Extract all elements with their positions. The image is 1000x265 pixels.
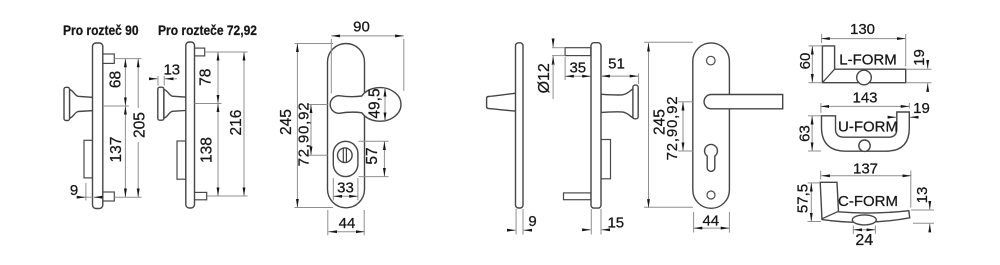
Ø12 tail — [552, 64, 554, 100]
svg-text:72,90,92: 72,90,92 — [664, 96, 681, 161]
svg-text:Pro rozteče 72,92: Pro rozteče 72,92 — [158, 22, 257, 38]
knob K1 cap — [64, 87, 70, 120]
ext 57-dim top — [359, 140, 389, 142]
plate P1 (side view) — [93, 43, 103, 209]
ext 245-dim top (G5) — [644, 41, 693, 43]
knob K1 flare — [70, 90, 94, 119]
C-FORM handle outline — [820, 182, 910, 222]
dim 9 right arrow (G4) — [524, 229, 532, 231]
ext bottom-tab right part (G1) — [114, 196, 141, 198]
plate P5 (front view, stadium) — [693, 43, 730, 208]
dimension 49,5 line — [384, 88, 386, 121]
ext 44-dim left (G5) — [693, 212, 695, 233]
dimension 216 line — [243, 52, 245, 196]
svg-text:143: 143 — [852, 90, 877, 107]
ext 63-dim top — [808, 115, 821, 117]
ext 72,90,92 top (G3) — [308, 104, 328, 106]
svg-text:90: 90 — [353, 19, 370, 36]
ext 9-dim left (G4) — [515, 209, 517, 235]
dimension 72,90,92 line (G3) — [310, 105, 312, 156]
cylinder housing (G4 right plate) — [601, 140, 611, 179]
19-dim bottom arrow (L) — [927, 83, 929, 91]
screw tab bottom (G2) — [194, 192, 207, 199]
ext 90-dim left — [330, 39, 332, 94]
dimension 205 upper segment — [137, 59, 139, 108]
ext 15-dim left — [590, 209, 592, 235]
dimension 51 line — [601, 75, 638, 77]
svg-text:130: 130 — [850, 21, 875, 38]
ext Ø12 bottom — [552, 55, 565, 57]
svg-text:137: 137 — [853, 161, 878, 178]
svg-text:137: 137 — [108, 137, 125, 163]
L-FORM spindle boss — [857, 70, 872, 85]
handle plate (right, G4) — [591, 43, 601, 208]
svg-text:44: 44 — [702, 212, 719, 229]
dim 13 right arrow — [165, 78, 177, 80]
ext 19-dim bottom (L) — [906, 82, 932, 84]
19-dim left arrow (U) — [891, 116, 897, 118]
svg-text:24: 24 — [855, 232, 873, 249]
dimension 68 line — [124, 59, 126, 106]
svg-text:57: 57 — [364, 147, 381, 164]
cylinder housing (G2) — [177, 141, 186, 179]
ext 13-dim right (G2) — [163, 76, 165, 86]
dimension 245 line (G5) — [648, 43, 650, 208]
dimension 130 line — [821, 38, 906, 40]
svg-text:57,5: 57,5 — [794, 184, 811, 213]
dim 15 right arrow — [602, 229, 610, 231]
dimension 78 line — [217, 52, 219, 104]
ext 57-dim bottom — [359, 176, 389, 178]
dimension 138 line — [217, 104, 219, 197]
ext 245-dim top (G3) — [295, 43, 334, 45]
ext 19-dim top (L) — [906, 68, 932, 70]
knob K2 cap — [158, 87, 164, 120]
knob cap (right plate G4) — [633, 85, 638, 119]
svg-text:68: 68 — [107, 71, 124, 88]
dimension 24 line — [853, 229, 875, 231]
ext 72,90,92 bottom (G3) — [308, 154, 328, 156]
dimension 44 line (G3) — [328, 231, 364, 233]
svg-text:51: 51 — [608, 56, 625, 73]
ext 33-dim right — [357, 178, 359, 200]
svg-text:19: 19 — [913, 100, 930, 117]
13-dim bottom arrow — [929, 224, 931, 232]
ext knob center (G1) — [103, 105, 129, 107]
L-FORM miter line — [822, 69, 834, 83]
dim 13 left arrow — [151, 78, 158, 80]
dim 9 right arrow — [94, 196, 100, 198]
ext 44-dim left (G3) — [327, 210, 329, 235]
security knob pear-shaped escutcheon — [330, 88, 401, 122]
dimension 57,5 line — [810, 183, 812, 222]
svg-text:L-FORM: L-FORM — [839, 52, 897, 69]
dim 9 left arrow (G4) — [508, 229, 516, 231]
svg-text:19: 19 — [911, 49, 928, 66]
svg-text:Ø12: Ø12 — [536, 63, 553, 93]
knob K2 flare — [164, 90, 187, 119]
screw hole top (G5) — [707, 56, 716, 65]
ext 72,90,92 bottom (G5) — [678, 150, 693, 152]
ext Ø12 top — [552, 47, 565, 49]
dimension 137 line — [821, 175, 911, 177]
cylinder housing (G1) — [84, 140, 93, 178]
ext 24-dim right — [874, 226, 876, 234]
ext 15-dim right — [600, 209, 602, 235]
ext 143-dim left — [820, 103, 822, 113]
svg-text:9: 9 — [70, 182, 78, 199]
svg-text:35: 35 — [569, 59, 586, 76]
ext 137-dim left — [820, 171, 822, 180]
svg-text:13: 13 — [163, 61, 180, 78]
ext 60-dim top — [809, 45, 823, 47]
ext 63-dim bottom — [808, 150, 821, 152]
ext 9-dim right (G4) — [522, 209, 524, 235]
lever grip end-on (left plate G4) — [487, 93, 516, 111]
ext 44-dim right (G3) — [363, 210, 365, 235]
ext 9-dim housing edge (G1) — [85, 183, 87, 201]
cylinder turn disc (G3) — [338, 148, 353, 163]
screw tab bottom (G1) — [103, 192, 115, 201]
screw hole bottom (G5) — [707, 191, 715, 199]
lever handle (G5) — [704, 95, 783, 109]
ext knob center (G2) — [195, 103, 222, 105]
svg-text:245: 245 — [278, 109, 295, 135]
dimension 60 line — [811, 46, 813, 83]
ext 245-dim bottom (G3) — [295, 207, 334, 209]
plate P3 (front view, stadium) — [328, 44, 365, 208]
euro profile keyhole (G5) — [705, 144, 718, 171]
ext bottom-tab center (G2) — [207, 195, 248, 197]
ext bottom-tab/9-dim left part (G1) — [79, 196, 93, 198]
dimension 90 line — [331, 35, 404, 37]
svg-text:15: 15 — [607, 215, 624, 232]
ext 90-dim right — [403, 39, 405, 91]
cylinder oval cover (G3) — [333, 141, 358, 176]
ext 33-dim left — [332, 178, 334, 200]
ext 51-dim right — [638, 74, 640, 85]
svg-text:U-FORM: U-FORM — [838, 118, 898, 135]
dim 15 left arrow — [583, 229, 591, 231]
19-dim right arrow (U) — [910, 116, 916, 118]
svg-text:216: 216 — [228, 110, 245, 136]
svg-text:44: 44 — [339, 215, 356, 232]
svg-text:9: 9 — [528, 213, 536, 230]
dimension 205 lower segment — [137, 142, 139, 197]
dimension 35 line — [565, 75, 591, 77]
svg-text:138: 138 — [199, 137, 216, 163]
dimension 245 line (G3) — [296, 44, 298, 208]
ext 35-dim left — [564, 57, 566, 80]
13-dim top arrow — [929, 202, 931, 210]
ext 72,90,92 top (G5) — [678, 101, 693, 103]
ext 60-dim bottom — [809, 82, 823, 84]
U-FORM handle outline — [822, 112, 910, 151]
U-FORM spindle boss — [859, 140, 870, 151]
bottom fixing screw pin (G4 right plate) — [564, 193, 592, 200]
ext 245-dim bottom (G5) — [644, 206, 693, 208]
ext 24-dim left — [852, 226, 854, 234]
plate P2 (side view) — [186, 42, 195, 208]
ext 13-dim bottom — [913, 222, 934, 224]
19-dim top arrow (L) — [927, 61, 929, 69]
dimension 33 line — [333, 195, 358, 197]
knob trumpet (right plate G4) — [601, 89, 633, 118]
screw tab top (G1) — [103, 54, 115, 63]
spindle pin Ø12 — [565, 48, 591, 56]
ext 130-dim left — [821, 34, 823, 43]
L-FORM handle outline — [822, 46, 905, 83]
svg-text:Pro rozteč 90: Pro rozteč 90 — [63, 22, 139, 38]
cover plate (left, G4) — [516, 43, 524, 208]
dimension 44 line (G5) — [694, 227, 730, 229]
screw tab top (G2) — [194, 48, 205, 56]
Ø12 bottom arrow — [552, 56, 554, 63]
Ø12 top arrow — [552, 40, 554, 47]
ext 13-dim top — [911, 209, 934, 211]
C-FORM miter line — [822, 212, 838, 219]
svg-text:33: 33 — [337, 180, 354, 197]
svg-text:13: 13 — [914, 187, 931, 204]
svg-text:205: 205 — [131, 112, 148, 138]
ext 44-dim right (G5) — [728, 212, 730, 233]
ext top-tab center (G1) — [115, 58, 142, 60]
dimension 143 line — [820, 105, 909, 107]
C-FORM spindle boss (ellipse) — [852, 215, 876, 225]
svg-text:63: 63 — [796, 125, 813, 142]
svg-text:49,5: 49,5 — [367, 88, 384, 118]
ext 13-dim left (G2) — [157, 76, 159, 86]
dim 9 left arrow — [80, 196, 85, 198]
dimension 63 line — [811, 116, 813, 151]
dimension 57 line — [383, 141, 385, 176]
ext 57,5-dim top — [808, 182, 821, 184]
ext 137-dim right — [910, 171, 912, 208]
ext top-tab center (G2) — [205, 51, 248, 53]
svg-text:60: 60 — [797, 53, 814, 70]
dimension 72,90,92 line (G5) — [682, 102, 684, 151]
ext 57,5-dim bottom — [808, 221, 822, 223]
svg-text:C-FORM: C-FORM — [838, 193, 898, 210]
ext 130-dim right — [905, 34, 907, 67]
svg-text:72,90,92: 72,90,92 — [296, 102, 313, 167]
svg-text:78: 78 — [198, 69, 215, 86]
disc slot lines — [343, 148, 346, 162]
ext 143-dim right — [908, 103, 910, 109]
dimension 137 line — [124, 106, 126, 197]
